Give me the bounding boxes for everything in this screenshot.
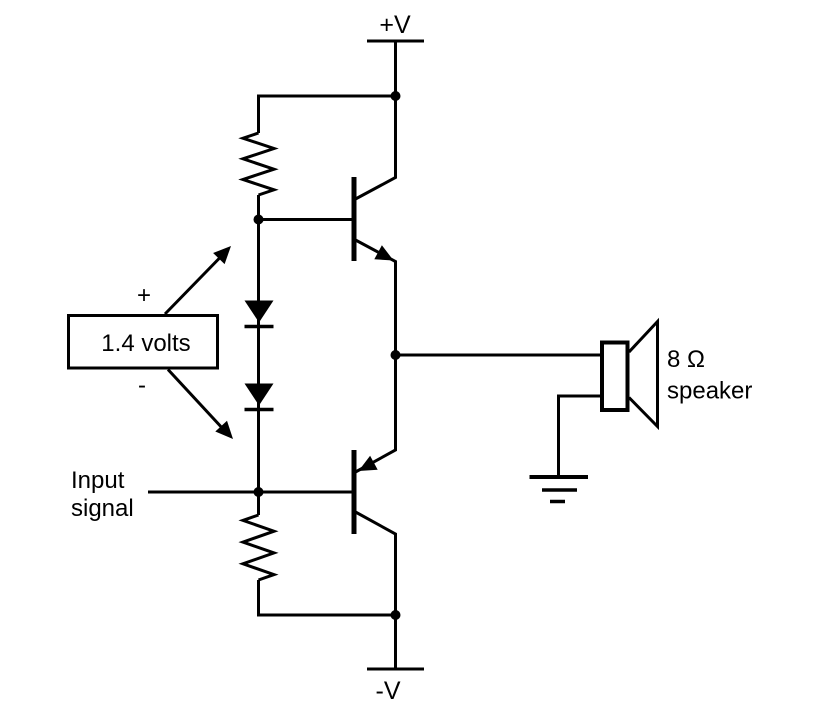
svg-text:signal: signal xyxy=(71,495,134,522)
transistor Q2 base bar xyxy=(352,450,357,534)
svg-text:speaker: speaker xyxy=(667,378,752,405)
wire node B through diodes to node C xyxy=(257,220,260,493)
wire node C to resistor R2 xyxy=(257,492,260,515)
callout arrow to node C (lower) xyxy=(168,370,233,440)
power rail -V bar xyxy=(367,668,424,671)
speaker body xyxy=(602,343,628,411)
transistor Q1 collector xyxy=(356,96,396,199)
node B junction dot xyxy=(254,215,264,225)
wire R2 to node D xyxy=(259,580,396,615)
output node junction dot xyxy=(391,350,401,360)
svg-text:-: - xyxy=(138,372,146,399)
diode D2 xyxy=(245,384,274,410)
svg-text:Input: Input xyxy=(71,467,125,494)
svg-text:-V: -V xyxy=(376,677,401,705)
transistor Q2 emitter with arrow xyxy=(356,355,396,472)
svg-text:+V: +V xyxy=(379,11,411,39)
node A junction dot xyxy=(391,91,401,101)
wire R1 to node B xyxy=(257,195,260,220)
speaker cone xyxy=(629,322,658,427)
wire output node to speaker xyxy=(396,354,602,357)
wire speaker to ground xyxy=(559,396,603,477)
wire node D to -V bar xyxy=(394,615,397,669)
power rail +V bar xyxy=(367,40,424,43)
transistor Q2 collector xyxy=(356,512,396,615)
transistor Q1 emitter with arrow xyxy=(356,240,396,355)
resistor R2 xyxy=(243,515,274,580)
node C junction dot xyxy=(254,487,264,497)
resistor R1 xyxy=(243,133,274,195)
ground xyxy=(530,477,589,502)
wire node B to Q1 base xyxy=(259,218,355,221)
wire +V bar to node A xyxy=(394,41,397,96)
wire node A to resistor R1 top xyxy=(259,96,396,133)
svg-text:+: + xyxy=(137,282,151,309)
callout arrow to node B (upper) xyxy=(165,246,231,314)
svg-text:8 Ω: 8 Ω xyxy=(667,346,705,373)
transistor Q1 base bar xyxy=(352,177,357,261)
input signal wire to Q2 base xyxy=(148,491,354,494)
svg-text:1.4 volts: 1.4 volts xyxy=(101,330,190,357)
diode D1 xyxy=(245,301,274,327)
1.4 volts box xyxy=(69,316,218,369)
node D junction dot xyxy=(391,610,401,620)
